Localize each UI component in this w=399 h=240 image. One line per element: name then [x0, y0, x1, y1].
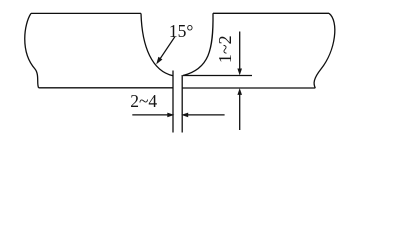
dimension 1~2 lower dimension line: [239, 93, 241, 131]
dimension 1~2 upper dimension line: [239, 32, 241, 70]
left plate top edge: [31, 12, 141, 14]
right groove face curve: [183, 13, 213, 75]
left root face / gap edge vertical: [172, 71, 174, 133]
dimension 2~4 left dimension line: [132, 114, 168, 116]
right plate top edge: [213, 12, 329, 14]
right root face / gap edge vertical: [181, 75, 183, 133]
left groove face curve: [141, 13, 173, 75]
left plate bottom edge: [39, 87, 173, 89]
arrowhead 2~4 right (points left): [181, 113, 188, 118]
leader line for 15 degree angle: [160, 37, 174, 59]
arrowhead 1~2 upper (points down): [237, 69, 242, 76]
arrowhead 2~4 left (points right): [167, 113, 174, 118]
svg-text:2~4: 2~4: [130, 91, 157, 111]
arrowhead 1~2 lower (points up): [237, 88, 242, 95]
svg-text:1~2: 1~2: [215, 35, 235, 63]
arrowhead of 15 degree leader: [156, 57, 162, 65]
root face top extension line: [183, 75, 252, 77]
svg-text:15°: 15°: [169, 21, 194, 41]
dimension 2~4 right dimension line: [188, 114, 225, 116]
left plate break-line (wavy left edge): [25, 13, 39, 87]
right plate break-line (wavy right edge): [314, 13, 335, 88]
right plate bottom edge: [182, 87, 315, 89]
